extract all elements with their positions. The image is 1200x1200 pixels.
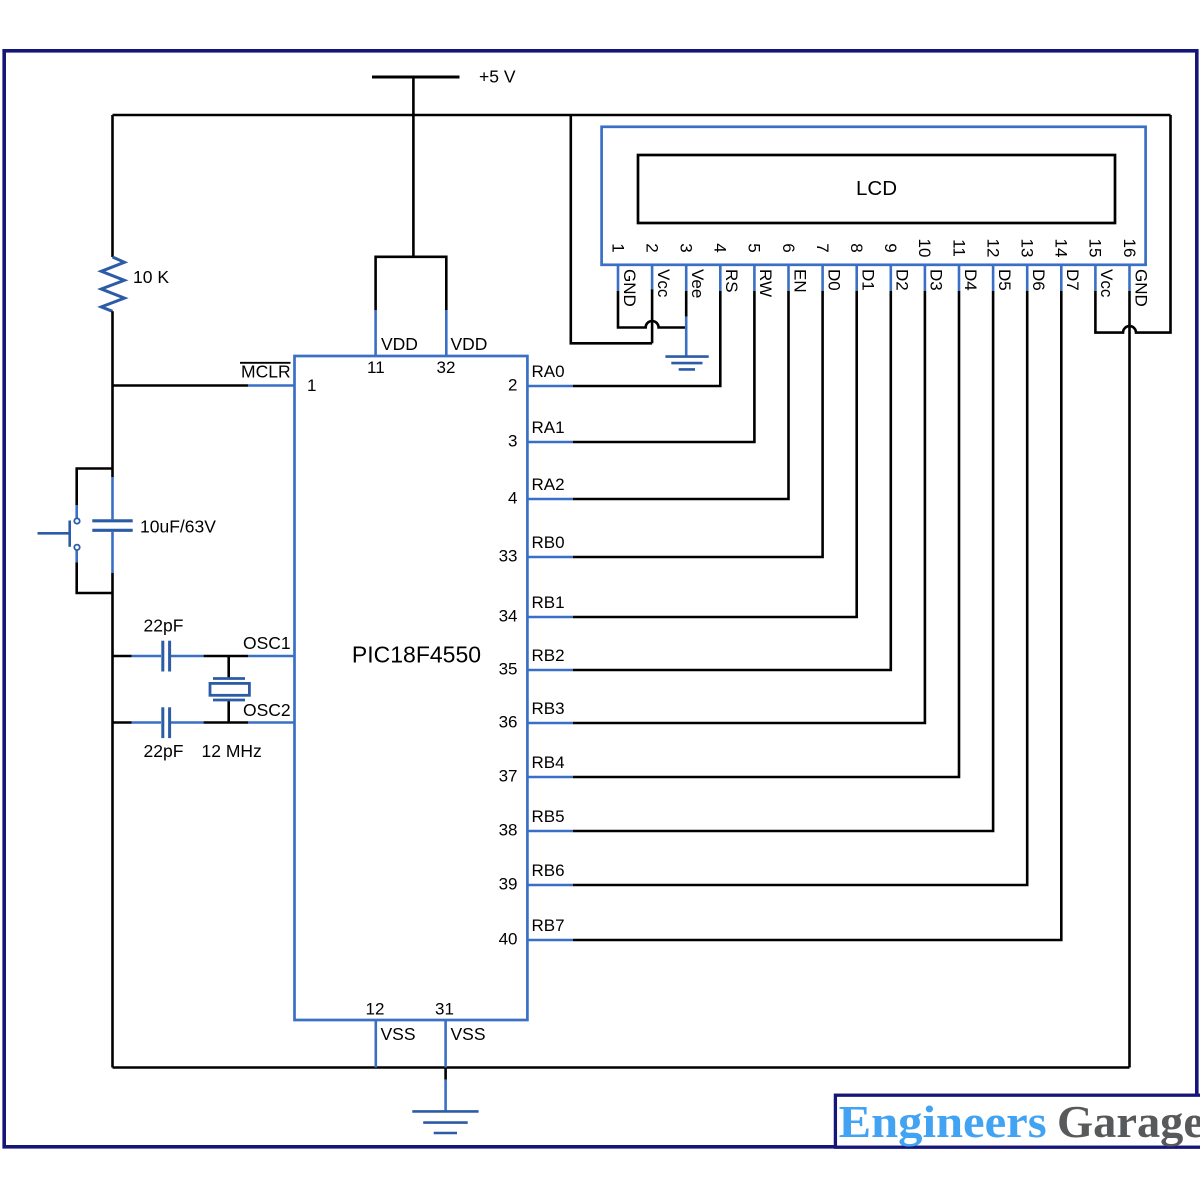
svg-text:LCD: LCD xyxy=(856,177,897,200)
LCD pin number 13 xyxy=(1017,239,1036,258)
LCD pin 12 stub xyxy=(992,265,995,291)
wire port RA2 pin 4 xyxy=(527,498,573,501)
svg-text:32: 32 xyxy=(437,358,456,377)
LCD pin 9 stub xyxy=(889,265,892,291)
svg-text:Garage: Garage xyxy=(1057,1097,1200,1147)
wire top +5V rail xyxy=(113,114,1171,117)
svg-text:D4: D4 xyxy=(961,269,980,291)
svg-text:39: 39 xyxy=(499,875,518,894)
svg-text:RA2: RA2 xyxy=(532,475,565,494)
LCD pin label D3 xyxy=(927,269,946,291)
LCD pin label Vee xyxy=(688,269,707,298)
wire +5V to LCD Vcc pin2 xyxy=(571,115,652,343)
wire port RB7 pin 40 xyxy=(527,939,573,942)
LCD pin 15 stub xyxy=(1094,265,1097,291)
capacitor C3 22pF plates xyxy=(161,707,164,738)
wire LCD pin1 GND to Vee/ground (hop over pin2) xyxy=(618,291,686,328)
LCD pin number 16 xyxy=(1120,239,1139,258)
svg-text:13: 13 xyxy=(1017,239,1036,258)
wire port RB5 pin 38 xyxy=(527,830,573,833)
LCD pin 8 stub xyxy=(855,265,858,291)
svg-text:RB7: RB7 xyxy=(532,916,565,935)
svg-text:10 K: 10 K xyxy=(133,267,169,287)
IC U1 PIC18F4550 xyxy=(295,356,528,1020)
LCD pin number 2 xyxy=(642,243,661,252)
LCD pin 1 stub xyxy=(617,265,620,291)
svg-text:RB0: RB0 xyxy=(532,533,565,552)
svg-text:16: 16 xyxy=(1120,239,1139,258)
svg-text:D7: D7 xyxy=(1063,269,1082,291)
svg-text:VDD: VDD xyxy=(451,334,488,354)
LCD pin 16 stub xyxy=(1128,265,1131,291)
svg-text:Vcc: Vcc xyxy=(1097,269,1116,298)
ground main xyxy=(444,1068,447,1080)
LCD pin label Vcc xyxy=(1097,269,1116,298)
svg-text:VSS: VSS xyxy=(381,1024,416,1044)
LCD pin label D7 xyxy=(1063,269,1082,291)
LCD pin number 7 xyxy=(813,243,832,252)
svg-text:36: 36 xyxy=(499,713,518,732)
svg-text:33: 33 xyxy=(499,547,518,566)
svg-text:RB6: RB6 xyxy=(532,861,565,880)
wire LCD pin2 black xyxy=(651,290,654,344)
wire left vertical lower xyxy=(111,573,114,1068)
wire MCLR black segment xyxy=(113,384,249,387)
LCD pin 14 stub xyxy=(1060,265,1063,291)
LCD pin number 9 xyxy=(881,243,900,252)
wire left vertical upper xyxy=(111,115,114,257)
svg-text:PIC18F4550: PIC18F4550 xyxy=(352,642,481,668)
LCD pin label RS xyxy=(722,269,741,293)
LCD pin label D0 xyxy=(824,269,843,291)
LCD pin 5 stub xyxy=(753,265,756,291)
svg-text:MCLR: MCLR xyxy=(241,362,291,382)
svg-text:1: 1 xyxy=(608,243,627,252)
svg-text:OSC1: OSC1 xyxy=(243,633,291,653)
LCD pin label D5 xyxy=(995,269,1014,291)
svg-text:38: 38 xyxy=(499,821,518,840)
svg-text:10: 10 xyxy=(915,239,934,258)
svg-text:22pF: 22pF xyxy=(144,741,184,761)
svg-text:D0: D0 xyxy=(824,269,843,291)
svg-text:GND: GND xyxy=(1131,269,1150,307)
wire port RB3 pin 36 xyxy=(527,722,573,725)
svg-text:EN: EN xyxy=(790,269,809,293)
wire VDD stub pin 32 xyxy=(445,310,448,356)
wire port RB2 pin 35 xyxy=(527,669,573,672)
svg-text:11: 11 xyxy=(949,239,968,257)
svg-text:22pF: 22pF xyxy=(144,616,184,636)
capacitor C1 plates xyxy=(92,519,132,522)
svg-text:2: 2 xyxy=(508,376,517,395)
LCD pin number 3 xyxy=(677,243,696,252)
svg-text:3: 3 xyxy=(508,432,517,451)
svg-text:Vee: Vee xyxy=(688,269,707,298)
svg-text:4: 4 xyxy=(711,243,730,252)
LCD pin label GND xyxy=(620,269,639,307)
svg-text:35: 35 xyxy=(499,660,518,679)
LCD pin label GND xyxy=(1131,269,1150,307)
resistor R1 10K xyxy=(101,257,124,311)
LCD pin number 15 xyxy=(1086,239,1105,258)
wire bottom rail xyxy=(113,1066,1130,1069)
wire port RA1 pin 3 xyxy=(527,441,573,444)
LCD pin label D1 xyxy=(859,269,878,291)
svg-text:OSC2: OSC2 xyxy=(243,700,291,720)
wire left vertical middle xyxy=(111,311,114,477)
LCD pin 11 stub xyxy=(958,265,961,291)
wire MCLR blue stub xyxy=(248,384,295,387)
LCD pin 10 stub xyxy=(924,265,927,291)
LCD pin number 6 xyxy=(779,243,798,252)
svg-text:15: 15 xyxy=(1086,239,1105,258)
svg-text:RA0: RA0 xyxy=(532,362,565,381)
LCD module outline xyxy=(602,127,1146,265)
LCD pin 7 stub xyxy=(821,265,824,291)
LCD pin label D2 xyxy=(893,269,912,291)
svg-text:34: 34 xyxy=(499,607,518,626)
svg-text:3: 3 xyxy=(677,243,696,252)
svg-text:VDD: VDD xyxy=(381,334,418,354)
wire LCD pin16 GND down to bottom rail xyxy=(1128,291,1131,1068)
svg-text:31: 31 xyxy=(435,1000,454,1019)
LCD pin number 4 xyxy=(711,243,730,252)
wire port RB4 pin 37 xyxy=(527,776,573,779)
wire LCD pin15 Vcc to +5V rail (hop over pin16) xyxy=(1095,115,1170,333)
LCD pin label EN xyxy=(790,269,809,293)
svg-text:GND: GND xyxy=(620,269,639,307)
svg-text:2: 2 xyxy=(642,243,661,252)
svg-text:RB4: RB4 xyxy=(532,753,565,772)
svg-text:RB3: RB3 xyxy=(532,699,565,718)
ground LCD Vee xyxy=(665,355,708,358)
svg-text:40: 40 xyxy=(499,930,518,949)
svg-text:4: 4 xyxy=(508,489,517,508)
wire VSS stub pin 31 xyxy=(444,1020,447,1068)
svg-text:11: 11 xyxy=(367,358,385,377)
LCD pin number 10 xyxy=(915,239,934,258)
svg-text:RB1: RB1 xyxy=(532,593,565,612)
svg-text:5: 5 xyxy=(745,243,764,252)
wire OSC2 row xyxy=(113,721,132,724)
LCD pin number 12 xyxy=(983,239,1002,258)
svg-text:7: 7 xyxy=(813,243,832,252)
LCD pin 4 stub xyxy=(719,265,722,291)
svg-text:+5 V: +5 V xyxy=(479,67,516,87)
svg-text:D5: D5 xyxy=(995,269,1014,291)
svg-text:RS: RS xyxy=(722,269,741,293)
wire push-button top bracket xyxy=(77,469,113,506)
svg-text:9: 9 xyxy=(881,243,900,252)
wire port RB0 pin 33 xyxy=(527,556,573,559)
svg-text:37: 37 xyxy=(499,767,518,786)
svg-text:1: 1 xyxy=(307,376,316,395)
svg-text:RB2: RB2 xyxy=(532,646,565,665)
LCD pin number 14 xyxy=(1052,239,1071,258)
svg-text:VSS: VSS xyxy=(451,1024,486,1044)
EngineersGarage logo box xyxy=(835,1095,1200,1147)
svg-text:D1: D1 xyxy=(859,269,878,291)
LCD pin 2 stub xyxy=(651,265,654,291)
wire VDD feed box xyxy=(376,257,447,310)
wire port RA0 pin 2 xyxy=(527,385,573,388)
svg-text:12: 12 xyxy=(366,1000,385,1019)
capacitor C2 22pF plates xyxy=(161,641,164,672)
LCD pin label D4 xyxy=(961,269,980,291)
svg-text:8: 8 xyxy=(847,243,866,252)
wire OSC1 row xyxy=(113,655,132,658)
LCD pin label RW xyxy=(756,269,775,297)
wire VDD stub pin 11 xyxy=(374,310,377,356)
power +5V symbol xyxy=(372,76,460,79)
LCD pin 6 stub xyxy=(787,265,790,291)
wire VSS stub pin 12 xyxy=(374,1020,377,1068)
LCD pin number 1 xyxy=(608,243,627,252)
svg-text:Vcc: Vcc xyxy=(654,269,673,298)
wire port RB1 pin 34 xyxy=(527,616,573,619)
crystal X1 xyxy=(213,677,245,680)
svg-text:10uF/63V: 10uF/63V xyxy=(140,517,216,537)
LCD pin number 8 xyxy=(847,243,866,252)
svg-text:D3: D3 xyxy=(927,269,946,291)
push-button S1 xyxy=(75,505,78,518)
wire push-button bottom bracket xyxy=(77,563,113,594)
svg-text:D2: D2 xyxy=(893,269,912,291)
svg-text:12: 12 xyxy=(983,239,1002,258)
svg-text:RW: RW xyxy=(756,269,775,297)
LCD pin label Vcc xyxy=(654,269,673,298)
crystal X1 leads xyxy=(227,656,230,679)
LCD pin number 11 xyxy=(949,239,968,257)
wire LCD pin3 Vee down xyxy=(685,291,688,317)
svg-text:RB5: RB5 xyxy=(532,807,565,826)
capacitor C1 10uF/63V leads xyxy=(111,477,114,519)
svg-text:Engineers: Engineers xyxy=(839,1097,1047,1147)
LCD display rect xyxy=(638,155,1115,223)
svg-text:14: 14 xyxy=(1052,239,1071,258)
LCD pin number 5 xyxy=(745,243,764,252)
LCD pin 3 stub xyxy=(685,265,688,291)
svg-text:12 MHz: 12 MHz xyxy=(202,741,262,761)
LCD pin label D6 xyxy=(1029,269,1048,291)
wire port RB6 pin 39 xyxy=(527,884,573,887)
svg-text:6: 6 xyxy=(779,243,798,252)
LCD pin 13 stub xyxy=(1026,265,1029,291)
svg-text:RA1: RA1 xyxy=(532,418,565,437)
svg-text:D6: D6 xyxy=(1029,269,1048,291)
